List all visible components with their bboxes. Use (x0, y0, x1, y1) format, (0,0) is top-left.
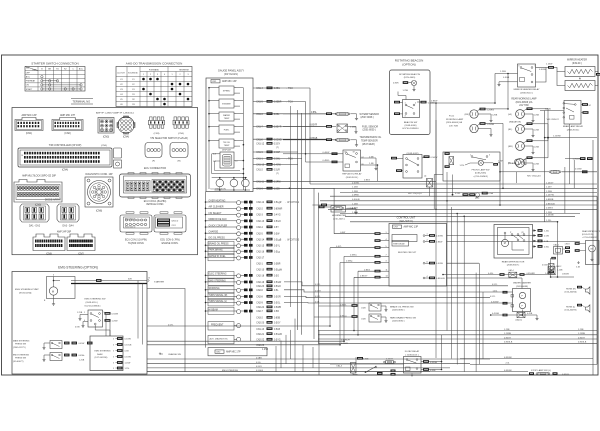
svg-text:(CN5): (CN5) (178, 133, 184, 135)
svg-text:0.5RL: 0.5RL (455, 193, 461, 195)
svg-text:CN2-3: CN2-3 (256, 215, 263, 217)
svg-text:0.5GB: 0.5GB (503, 77, 510, 79)
svg-text:6: 6 (53, 274, 54, 276)
float relay pins (423, 360, 429, 363)
svg-text:1.45L: 1.45L (493, 291, 499, 293)
svg-text:T/M SELECTOR SWITCH (P+26+M): T/M SELECTOR SWITCH (P+26+M) (150, 138, 188, 140)
svg-text:CN2-9: CN2-9 (256, 303, 263, 305)
svg-text:ECU CON-1 (8A-P84): ECU CON-1 (8A-P84) (144, 200, 167, 203)
svg-text:CN2-1: CN2-1 (256, 264, 263, 266)
svg-text:TRM: TRM (32, 69, 37, 71)
svg-text:CN2-17: CN2-17 (256, 258, 265, 260)
gauge T/M OIL TEMP (219, 139, 234, 148)
svg-text:0.5Wp: 0.5Wp (346, 261, 353, 263)
svg-text:(D10-4025 ): (D10-4025 ) (333, 219, 345, 221)
svg-text:(D4B-2036): (D4B-2036) (475, 173, 486, 175)
svg-text:24V 70W: 24V 70W (449, 125, 459, 127)
svg-text:CN1-13: CN1-13 (256, 329, 265, 331)
svg-text:(N): (N) (508, 163, 511, 165)
svg-text:DA1-3: DA1-3 (337, 365, 344, 368)
svg-text:1.25B: 1.25B (274, 188, 280, 190)
svg-text:5: 5 (386, 246, 387, 248)
svg-text:AMP MIC 17P: AMP MIC 17P (226, 351, 241, 354)
svg-text:CN2-21: CN2-21 (256, 334, 265, 336)
svg-text:0.5GO: 0.5GO (274, 221, 281, 223)
svg-text:(DA2-3): (DA2-3) (516, 319, 523, 322)
switch column left bracket (205, 192, 207, 348)
svg-text:R2: R2 (132, 99, 134, 101)
svg-text:EMG STEERING (OPTION): EMG STEERING (OPTION) (58, 265, 98, 269)
svg-text:→ TCU: → TCU (285, 88, 293, 90)
svg-text:0.85Lg: 0.85Lg (340, 316, 347, 318)
bottom bus wires (147, 358, 490, 360)
svg-text:EMG STEERING PUMP: EMG STEERING PUMP (15, 289, 39, 291)
front lamp sw output (493, 163, 498, 166)
svg-text:0.5YL: 0.5YL (490, 296, 496, 298)
svg-text:FUEL: FUEL (224, 130, 230, 132)
svg-text:(CN4): (CN4) (62, 169, 69, 172)
svg-text:(CN1): (CN1) (26, 132, 33, 135)
svg-text:1.25GW: 1.25GW (573, 159, 581, 161)
svg-text:0.5GW: 0.5GW (539, 69, 547, 71)
svg-text:PRESS SW: PRESS SW (15, 358, 26, 360)
svg-text:AMP MIC 17P: AMP MIC 17P (60, 114, 76, 117)
svg-text:0.5BR: 0.5BR (274, 264, 281, 266)
svg-text:0.5GW: 0.5GW (125, 339, 131, 341)
rear lamp relay drop (544, 111, 546, 222)
svg-text:0.85WR: 0.85WR (274, 208, 283, 210)
svg-text:1.25W: 1.25W (125, 363, 131, 365)
svg-text:6CZ'00-D3/B010: 6CZ'00-D3/B010 (402, 128, 419, 130)
svg-text:+(2'00-D3/B05): +(2'00-D3/B05) (473, 176, 488, 178)
svg-text:0.85G: 0.85G (364, 269, 370, 271)
svg-text:3: 3 (113, 338, 114, 340)
svg-text:2: 2 (150, 74, 151, 76)
svg-text:DA3 - DA4: DA3 - DA4 (63, 225, 75, 228)
svg-text:AMP 24P 26P: AMP 24P 26P (57, 231, 72, 234)
svg-text:CN1-2: CN1-2 (256, 170, 263, 172)
svg-text:0.5Lg: 0.5Lg (274, 251, 280, 253)
wire band middle (310, 183, 597, 185)
rear wiper assembly box (494, 225, 533, 259)
svg-text:0.85GY: 0.85GY (562, 374, 570, 376)
control unit flasher (392, 235, 417, 242)
svg-text:TEMP: TEMP (224, 118, 230, 120)
svg-text:14: 14 (386, 276, 388, 278)
svg-text:(2049-4110 ): (2049-4110 ) (86, 302, 99, 304)
connector F round 4pin (145, 143, 162, 158)
svg-text:0.85GLB: 0.85GLB (578, 342, 587, 344)
svg-text:(T): (T) (276, 147, 279, 149)
svg-text:1.25B: 1.25B (534, 164, 540, 166)
svg-text:1.25B: 1.25B (534, 147, 540, 149)
svg-text:1.25RG: 1.25RG (487, 109, 495, 111)
svg-text:0.5B: 0.5B (315, 301, 320, 303)
svg-text:ENGINE CONN.: ENGINE CONN. (162, 243, 179, 245)
svg-text:CN1-12: CN1-12 (256, 144, 265, 146)
svg-text:62920 00: 62920 00 (172, 221, 179, 223)
starter stub (148, 279, 150, 281)
svg-text:DA2-4: DA2-4 (509, 269, 514, 272)
diode SA1-2 (548, 267, 555, 275)
float area wires (330, 363, 404, 365)
svg-text:0.5GY: 0.5GY (274, 323, 281, 325)
svg-text:3: 3 (386, 261, 387, 263)
long bus 290 (289, 106, 291, 307)
svg-text:0.5RW: 0.5RW (274, 181, 282, 183)
svg-text:DIAGNOSTIC CONN. 16P: DIAGNOSTIC CONN. 16P (85, 173, 113, 176)
rear lamp relay coil drop (569, 124, 571, 184)
svg-text:0.85GY: 0.85GY (504, 337, 512, 339)
connector group box (12, 108, 198, 255)
svg-text:3: 3 (187, 74, 188, 76)
svg-text:1.25B: 1.25B (504, 329, 510, 331)
svg-text:(HI): (HI) (508, 114, 512, 116)
svg-text:AMP MIC 13P: AMP MIC 13P (404, 226, 419, 229)
svg-text:0.85GB: 0.85GB (310, 138, 318, 140)
svg-text:(A4-): (A4-) (475, 197, 480, 200)
svg-text:1.25B: 1.25B (492, 114, 498, 116)
illumination lamps (212, 177, 247, 179)
svg-text:0.5GW: 0.5GW (575, 169, 582, 171)
svg-text:CN2-24: CN2-24 (256, 307, 265, 309)
svg-text:1.25B: 1.25B (352, 187, 358, 189)
svg-text:1.25A: 1.25A (488, 192, 494, 195)
svg-text:ILLUMINATION: ILLUMINATION (210, 187, 226, 190)
svg-text:0.5W: 0.5W (75, 327, 80, 329)
svg-text:0.85GY: 0.85GY (578, 337, 586, 339)
svg-text:HD10 6000 00: HD10 6000 00 (125, 218, 135, 220)
svg-text:C/DB: C/DB (361, 318, 366, 320)
svg-text:H2O CN(1-2)U: H2O CN(1-2)U (408, 193, 422, 195)
EMG steering relay box (90, 336, 123, 371)
svg-text:K3: K3 (120, 89, 122, 91)
svg-text:VEHICLE CONN.: VEHICLE CONN. (146, 204, 164, 206)
bottom right lower wires (460, 358, 593, 360)
svg-text:CN3-2: CN3-2 (256, 318, 263, 320)
svg-text:CN2-16: CN2-16 (256, 251, 265, 253)
mirror heater relay (518, 64, 536, 87)
svg-text:CN2-18: CN2-18 (256, 275, 265, 277)
svg-text:C2CO: C2CO (172, 225, 177, 227)
svg-text:(2946-9010 ): (2946-9010 ) (567, 130, 580, 132)
svg-text:0.85LB: 0.85LB (341, 343, 348, 345)
svg-text:TEMP SENSOR: TEMP SENSOR (361, 141, 378, 143)
washer row top (443, 274, 556, 276)
svg-text:CN1-11: CN1-11 (256, 181, 264, 183)
svg-text:(2049-9015 ): (2049-9015 ) (346, 177, 359, 179)
svg-text:ECU CONNECTOR: ECU CONNECTOR (144, 167, 166, 170)
connector CN2 AMP MIC 17P (52, 118, 83, 131)
svg-text:0.85G: 0.85G (274, 88, 280, 90)
svg-text:2: 2 (179, 74, 180, 76)
control unit output pins (423, 235, 425, 237)
svg-text:(FR): (FR) (465, 114, 470, 116)
svg-text:0.5GLB: 0.5GLB (352, 199, 360, 201)
svg-text:(949-00 ): (949-00 ) (572, 62, 582, 65)
svg-text:0.85L: 0.85L (274, 114, 280, 116)
frequent switch (208, 322, 234, 330)
svg-text:0.85B: 0.85B (430, 370, 436, 372)
svg-text:FRONT LAMP SW: FRONT LAMP SW (472, 168, 491, 171)
ECU connector 1 (120, 174, 191, 197)
connector diode array DA1-DA2 (20, 204, 49, 222)
svg-text:1.25B: 1.25B (534, 130, 540, 132)
svg-text:1: 1 (143, 74, 144, 76)
svg-text:0.5B: 0.5B (125, 351, 130, 353)
front lamp indicator (478, 160, 483, 165)
svg-text:1.85G: 1.85G (565, 244, 571, 246)
svg-text:ECU CON-3 ( PIN): ECU CON-3 ( PIN) (160, 240, 180, 242)
svg-text:0.85GW: 0.85GW (504, 370, 512, 372)
svg-text:ACC: ACC (26, 76, 31, 79)
svg-text:CN2-13: CN2-13 (256, 221, 265, 223)
svg-text:0.5Ww: 0.5Ww (350, 255, 357, 257)
svg-text:CN1-9: CN1-9 (256, 152, 263, 154)
svg-text:4: 4 (386, 239, 387, 241)
svg-text:0.45B: 0.45B (527, 313, 533, 315)
svg-text:0.5GW: 0.5GW (436, 263, 444, 265)
svg-text:PREHEAT: PREHEAT (26, 80, 36, 83)
rear wiper motor unit (586, 241, 600, 265)
svg-text:0.85GW: 0.85GW (504, 357, 512, 359)
svg-text:0.5GW: 0.5GW (352, 182, 360, 184)
svg-text:0.5G: 0.5G (274, 275, 279, 277)
svg-text:4: 4 (164, 74, 165, 76)
gauge panel header CN1 (211, 80, 220, 83)
svg-text:1.25B: 1.25B (77, 312, 83, 314)
svg-text:(D1N-4045): (D1N-4045) (404, 77, 416, 79)
svg-text:(K9-60677): (K9-60677) (13, 361, 24, 363)
svg-text:HOURMETER: HOURMETER (332, 215, 347, 217)
gauge panel internal bus (208, 88, 210, 189)
svg-text:CN2-15: CN2-15 (256, 245, 265, 247)
svg-text:CHARGE SW: CHARGE SW (168, 353, 181, 356)
svg-text:(CN7): (CN7) (78, 254, 84, 256)
svg-text:0.85B: 0.85B (274, 318, 280, 320)
svg-text:(RL): (RL) (508, 129, 513, 131)
svg-text:0.5R: 0.5R (274, 311, 279, 313)
svg-text:3: 3 (113, 362, 114, 364)
svg-text:DA2-1: DA2-1 (554, 244, 559, 247)
svg-text:CN1-7: CN1-7 (256, 127, 263, 129)
svg-text:0.5YL: 0.5YL (315, 284, 321, 286)
svg-text:(R): (R) (177, 161, 180, 163)
svg-text:1.25R: 1.25R (546, 212, 552, 214)
svg-text:ECU CON-2 (16-PIN): ECU CON-2 (16-PIN) (125, 240, 147, 242)
svg-text:0.5GR: 0.5GR (274, 297, 281, 299)
svg-text:SW: SW (26, 68, 29, 70)
svg-text:0.5LgB: 0.5LgB (274, 239, 282, 241)
connector diode array DA3-DA4 (57, 204, 79, 222)
svg-text:SPEED: SPEED (223, 91, 231, 93)
svg-text:PARK BRAKE PRESS SW: PARK BRAKE PRESS SW (390, 316, 417, 319)
svg-text:REAR WIPER MOTOR: REAR WIPER MOTOR (502, 260, 525, 263)
svg-text:RelAY: RelAY (97, 353, 103, 356)
rear wiper switch contacts (511, 234, 513, 236)
svg-text:1.25W: 1.25W (546, 64, 553, 66)
svg-text:1.45L: 1.45L (544, 231, 550, 233)
svg-text:STARTER SWITCH CONNECTION: STARTER SWITCH CONNECTION (31, 62, 78, 66)
transmission oil temp sensor (283, 139, 336, 141)
H2O line bboxes (582, 170, 588, 173)
svg-text:1.25L: 1.25L (546, 220, 552, 222)
svg-text:EMG STEERING: EMG STEERING (95, 351, 111, 353)
svg-text:REAR LAMP RELAY: REAR LAMP RELAY (563, 125, 584, 128)
svg-text:M: M (52, 289, 54, 293)
svg-text:DISPLAY: DISPLAY (222, 148, 232, 151)
svg-text:(1): (1) (424, 176, 427, 178)
svg-text:(2049-4030): (2049-4030) (405, 125, 417, 127)
svg-text:CLUTCH: CLUTCH (117, 73, 125, 75)
svg-text:1.25R: 1.25R (498, 161, 504, 163)
svg-text:1.25B: 1.25B (500, 71, 506, 73)
svg-text:STARTER: STARTER (154, 280, 164, 283)
svg-text:CN2-4: CN2-4 (256, 227, 263, 229)
svg-text:1.25B: 1.25B (546, 191, 552, 193)
svg-text:C/DB: C/DB (361, 307, 366, 309)
svg-text:1.25W: 1.25W (112, 321, 118, 323)
svg-text:(D1N-60606 )2A: (D1N-60606 )2A (516, 101, 533, 104)
svg-text:0.85R: 0.85R (393, 83, 399, 85)
svg-text:CN2-7: CN2-7 (256, 311, 263, 313)
rear lamp relay wires (582, 103, 588, 106)
svg-text:AMP MIC 13P: AMP MIC 13P (21, 114, 37, 117)
svg-text:0.5G: 0.5G (256, 362, 261, 364)
svg-text:CN2-8: CN2-8 (256, 297, 263, 299)
svg-text:1.25YW: 1.25YW (546, 195, 555, 197)
diode DA4 in front lamp box (445, 152, 450, 155)
right edge verticals (592, 140, 594, 375)
svg-text:1.25B: 1.25B (262, 349, 268, 351)
svg-text:B2: B2 (345, 152, 347, 154)
svg-text:HORN (H): HORN (H) (566, 288, 576, 290)
control unit input feed verticals (329, 248, 331, 326)
svg-text:1.25GW: 1.25GW (553, 136, 561, 138)
svg-text:0.4GL: 0.4GL (488, 273, 494, 275)
svg-text:0.5LB: 0.5LB (274, 329, 280, 331)
svg-text:VS1 CM3-C2: VS1 CM3-C2 (547, 119, 560, 121)
svg-text:0.45GB: 0.45GB (492, 313, 499, 315)
svg-text:EMG STEERING: EMG STEERING (13, 354, 29, 356)
svg-text:(D10-4007B): (D10-4007B) (565, 310, 577, 312)
svg-text:0.5GW: 0.5GW (112, 314, 119, 316)
svg-text:(2): (2) (522, 232, 525, 234)
control unit input wires (334, 233, 374, 235)
EMG steering option box (12, 272, 147, 375)
diode DA2-2 (549, 264, 555, 270)
svg-text:(2949-1122Y): (2949-1122Y) (13, 347, 26, 349)
svg-text:0.5RW: 0.5RW (352, 195, 360, 197)
svg-text:TEMP: TEMP (224, 145, 230, 147)
svg-text:(F): (F) (152, 161, 155, 163)
svg-text:(RR): (RR) (508, 146, 513, 148)
ECU connector 2 (120, 215, 152, 232)
svg-text:GAUGE PANEL ASS'Y: GAUGE PANEL ASS'Y (218, 69, 245, 73)
terminal-no note (71, 98, 93, 100)
svg-text:0.5WL: 0.5WL (274, 159, 281, 161)
svg-text:0.85GB: 0.85GB (274, 139, 282, 141)
svg-text:CN2-14: CN2-14 (256, 239, 265, 241)
svg-text:(2547-9008 ): (2547-9008 ) (361, 117, 374, 119)
wire drops below CN2 column (275, 346, 277, 372)
svg-text:1: 1 (470, 154, 471, 156)
svg-text:CN2-25: CN2-25 (256, 345, 265, 347)
svg-text:FUEL SENSOR: FUEL SENSOR (362, 126, 378, 128)
beacon feed wire (430, 102, 495, 104)
svg-text:60R: 60R (128, 279, 132, 281)
svg-text:TIME DELAY: TIME DELAY (393, 243, 405, 246)
bottom right bus wires (318, 330, 597, 332)
svg-text:1.25RB: 1.25RB (578, 333, 586, 335)
svg-text:0.5YL: 0.5YL (336, 246, 342, 248)
svg-text:0.5GLB: 0.5GLB (256, 370, 264, 372)
svg-text:1.25GY: 1.25GY (546, 182, 554, 184)
svg-text:1.25B: 1.25B (403, 90, 409, 92)
svg-text:24V 70W: 24V 70W (519, 105, 529, 107)
svg-text:1: 1 (386, 232, 387, 234)
front lamp sw box (443, 152, 500, 181)
svg-text:0.5GL: 0.5GL (274, 303, 281, 305)
svg-text:1.25W: 1.25W (545, 108, 551, 110)
front working lamp 2 (470, 124, 478, 132)
float relay (404, 357, 422, 374)
svg-text:0.5YL: 0.5YL (168, 324, 174, 326)
svg-text:(D1N-60606 )2A: (D1N-60606 )2A (446, 121, 462, 124)
svg-text:0.5W: 0.5W (544, 236, 549, 238)
svg-text:(D149-2135): (D149-2135) (582, 234, 594, 236)
svg-text:1: 1 (171, 74, 172, 76)
svg-text:WATER: WATER (223, 114, 231, 117)
svg-text:H2O CN(1-2)U: H2O CN(1-2)U (527, 176, 541, 178)
svg-text:1.25B: 1.25B (534, 115, 540, 117)
svg-text:0.85GLB: 0.85GLB (546, 203, 555, 205)
svg-text:1.25RB: 1.25RB (504, 333, 512, 335)
svg-text:0.5GY: 0.5GY (256, 366, 263, 368)
svg-text:CN1-4: CN1-4 (256, 88, 263, 90)
svg-text:(K9-60127A): (K9-60127A) (19, 292, 32, 295)
svg-text:1.25B: 1.25B (352, 203, 358, 205)
svg-text:(2946-9010 ): (2946-9010 ) (520, 93, 533, 95)
svg-text:STOP LAMP SW (L): STOP LAMP SW (L) (531, 369, 551, 372)
rotating beacon option box (390, 70, 431, 135)
svg-text:0.5GO: 0.5GO (274, 286, 281, 288)
svg-text:3: 3 (113, 356, 114, 358)
svg-text:0.85RB: 0.85RB (546, 199, 554, 201)
svg-text:BEACON SW: BEACON SW (404, 121, 418, 124)
fuel sensor (283, 126, 336, 128)
svg-text:0.4GW: 0.4GW (274, 165, 282, 167)
svg-text:T/M OIL: T/M OIL (223, 142, 231, 144)
svg-text:BUZZER CIRCUIT: BUZZER CIRCUIT (398, 252, 417, 254)
svg-text:0.85GLB: 0.85GLB (436, 278, 445, 280)
svg-text:TRANSMISSION OIL: TRANSMISSION OIL (360, 136, 383, 139)
water temp sensor (283, 113, 336, 115)
svg-text:CN2: CN2 (216, 352, 221, 354)
svg-text:3: 3 (113, 368, 114, 370)
svg-text:DA2-2: DA2-2 (556, 265, 561, 268)
svg-text:0.45W: 0.45W (79, 343, 85, 345)
svg-text:CN1-6: CN1-6 (256, 114, 263, 116)
svg-text:(2049-9090 ): (2049-9090 ) (392, 321, 405, 323)
svg-text:(D17-501280): (D17-501280) (95, 357, 108, 359)
connector CN4 AMP 9P round (118, 117, 134, 133)
svg-text:0.85G: 0.85G (364, 180, 370, 182)
svg-text:1.25L: 1.25L (460, 165, 466, 167)
svg-text:Front: Front (449, 115, 454, 118)
svg-text:REAR WORKING LAMP: REAR WORKING LAMP (511, 98, 537, 101)
svg-text:1.25B: 1.25B (352, 212, 358, 214)
